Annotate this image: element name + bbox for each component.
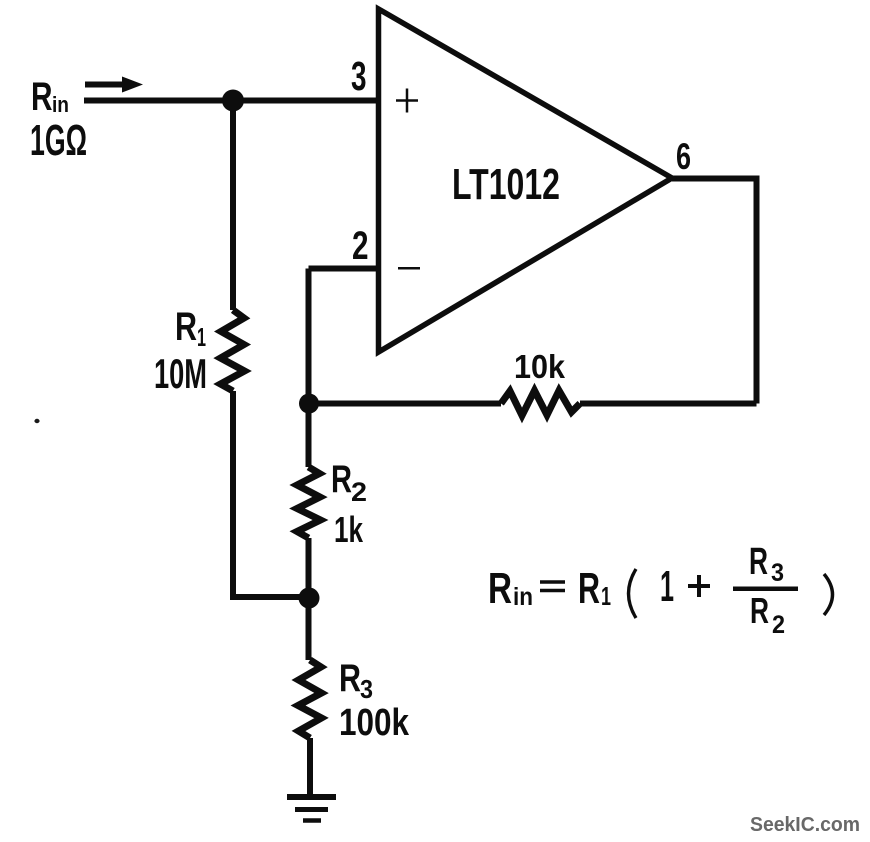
svg-text:R: R [175,305,197,349]
svg-text:6: 6 [676,136,691,177]
svg-text:R: R [339,657,361,700]
svg-text:100k: 100k [339,702,410,744]
svg-text:R: R [488,564,512,613]
svg-text:3: 3 [360,674,373,704]
svg-text:1GΩ: 1GΩ [30,116,87,165]
svg-text:3: 3 [771,559,784,587]
svg-text:1k: 1k [334,509,364,550]
svg-text:2: 2 [351,477,367,507]
svg-text:in: in [52,92,69,117]
svg-text:R: R [578,564,600,613]
svg-text:1: 1 [601,581,611,611]
svg-text:1: 1 [197,322,206,352]
svg-text:R: R [749,541,768,583]
svg-text:3: 3 [351,53,367,99]
svg-text:LT1012: LT1012 [452,160,560,209]
svg-text:R: R [750,590,769,631]
svg-text:R: R [331,458,352,501]
svg-text:R: R [31,75,53,119]
svg-text:SeekIC.com: SeekIC.com [750,814,860,836]
svg-text:1: 1 [660,562,674,611]
svg-text:in: in [513,583,533,611]
svg-text:10M: 10M [154,350,207,397]
svg-text:2: 2 [352,224,369,268]
svg-text:10k: 10k [514,348,566,385]
svg-text:2: 2 [772,611,785,639]
